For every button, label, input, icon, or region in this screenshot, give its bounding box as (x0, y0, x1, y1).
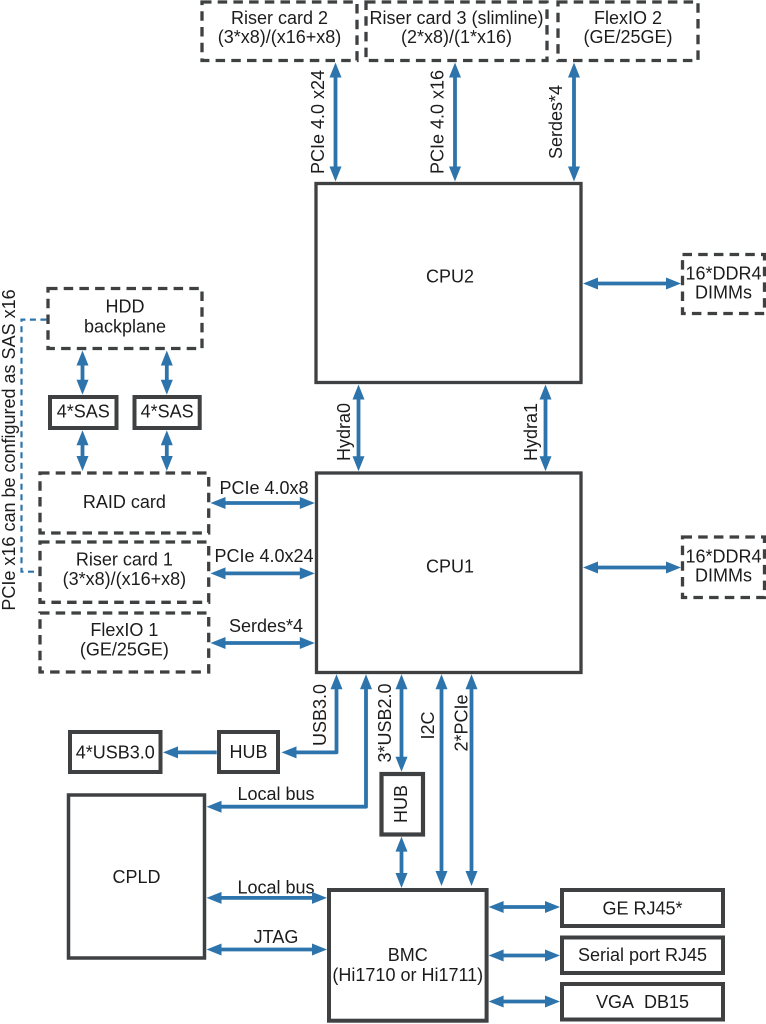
label: Local bus (CPLD - BMC) (237, 878, 314, 898)
svg-text:DIMMs: DIMMs (695, 566, 752, 586)
label: Local bus (CPU1 - CPLD) (237, 784, 314, 804)
arrow: BMC - VGA DB15 (489, 996, 560, 1008)
svg-text:Serdes*4: Serdes*4 (546, 85, 566, 159)
svg-text:(2*x8)/(1*x16): (2*x8)/(1*x16) (401, 27, 512, 47)
block: Riser card 2 (dashed) (202, 2, 357, 61)
svg-text:Serial port RJ45: Serial port RJ45 (578, 945, 707, 965)
block: 16*DDR4 DIMMs (lower, dashed) (683, 537, 765, 598)
arrow: Local bus (CPLD - BMC) (207, 892, 328, 904)
label: PCIe 4.0 x16 (428, 70, 448, 174)
arrow: CPU2 - 16*DDR4 DIMMs (583, 278, 681, 290)
svg-text:3*USB2.0: 3*USB2.0 (375, 683, 395, 762)
arrow: HUB - BMC (396, 837, 408, 888)
svg-text:Riser card 3 (slimline): Riser card 3 (slimline) (369, 8, 543, 28)
block: VGA DB15 (562, 984, 723, 1020)
arrow: Riser card 1 - CPU1 (PCIe 4.0x24) (211, 567, 315, 579)
svg-text:PCIe 4.0 x16: PCIe 4.0 x16 (428, 70, 448, 174)
svg-text:PCIe 4.0x24: PCIe 4.0x24 (214, 546, 313, 566)
svg-text:PCIe x16 can be configured as: PCIe x16 can be configured as SAS x16 (0, 289, 19, 610)
callout: blue dashed bracket (22, 320, 47, 572)
arrow: 3*USB2.0 (CPU1 - HUB) (396, 674, 408, 772)
svg-text:PCIe 4.0 x24: PCIe 4.0 x24 (308, 70, 328, 174)
arrow: 4*SAS right - RAID card (161, 430, 173, 471)
label: USB3.0 (310, 684, 330, 746)
block: HUB (USB2 hub) (382, 774, 424, 835)
arrow: RAID card - CPU1 (PCIe 4.0x8) (211, 497, 315, 509)
arrow: JTAG (CPLD - BMC) (207, 944, 328, 956)
svg-text:I2C: I2C (418, 711, 438, 739)
label: Serdes*4 (top) (546, 85, 566, 159)
arrow: 2*PCIe (CPU1 - BMC) (466, 674, 478, 886)
svg-text:HUB: HUB (229, 742, 267, 762)
svg-text:FlexIO 2: FlexIO 2 (594, 8, 662, 28)
svg-text:FlexIO 1: FlexIO 1 (90, 620, 158, 640)
svg-text:RAID card: RAID card (83, 492, 166, 512)
svg-text:2*PCIe: 2*PCIe (452, 694, 472, 751)
svg-text:Riser card 2: Riser card 2 (231, 8, 328, 28)
svg-text:GE RJ45*: GE RJ45* (602, 899, 682, 919)
label: PCIe 4.0 x24 (308, 70, 328, 174)
svg-text:Hydra0: Hydra0 (334, 403, 354, 461)
wire: USB3.0 (CPU1 - HUB) (282, 674, 343, 758)
svg-text:4*USB3.0: 4*USB3.0 (76, 743, 155, 763)
svg-text:BMC: BMC (388, 945, 428, 965)
block: Riser card 3 slimline (dashed) (366, 2, 547, 61)
svg-text:(3*x8)/(x16+x8): (3*x8)/(x16+x8) (218, 27, 342, 47)
block: 4*USB3.0 (70, 732, 161, 772)
label: 2*PCIe (452, 694, 472, 751)
block: CPU2 (316, 184, 581, 383)
svg-text:VGA DB15: VGA DB15 (596, 992, 689, 1012)
svg-text:(Hi1710 or Hi1711): (Hi1710 or Hi1711) (332, 965, 483, 985)
svg-text:PCIe 4.0x8: PCIe 4.0x8 (219, 478, 308, 498)
arrow: Hydra1 (CPU2 - CPU1) (540, 385, 552, 472)
svg-text:CPLD: CPLD (112, 867, 160, 887)
block: HDD backplane (dashed) (48, 289, 202, 349)
svg-text:(3*x8)/(x16+x8): (3*x8)/(x16+x8) (63, 569, 187, 589)
block: CPU1 (317, 473, 582, 673)
svg-text:4*SAS: 4*SAS (141, 402, 194, 422)
arrow: HDD backplane - 4*SAS left (77, 351, 89, 395)
block: 16*DDR4 DIMMs (upper, dashed) (683, 255, 765, 314)
arrow: CPU1 - 16*DDR4 DIMMs (583, 562, 681, 574)
svg-text:CPU2: CPU2 (426, 267, 474, 287)
arrow: Hydra0 (CPU2 - CPU1) (353, 385, 365, 472)
arrow: BMC - Serial port RJ45 (489, 950, 560, 962)
svg-text:Serdes*4: Serdes*4 (229, 616, 303, 636)
svg-text:16*DDR4: 16*DDR4 (685, 547, 761, 567)
arrow: 4*SAS left - RAID card (77, 430, 89, 471)
svg-text:Local bus: Local bus (237, 784, 314, 804)
block: Riser card 1 (dashed) (40, 542, 209, 602)
label: HUB (rotated) (391, 785, 411, 823)
arrow: Serdes*4 (FlexIO 2 - CPU2) (568, 63, 580, 182)
block: BMC (329, 890, 487, 1021)
svg-text:Hydra1: Hydra1 (521, 403, 541, 461)
svg-text:DIMMs: DIMMs (695, 283, 752, 303)
block: FlexIO 2 (dashed) (558, 2, 698, 61)
arrow: BMC - GE RJ45* (489, 901, 560, 913)
block: Serial port RJ45 (562, 938, 723, 974)
arrow: HDD backplane - 4*SAS right (161, 351, 173, 395)
svg-text:JTAG: JTAG (254, 927, 299, 947)
label: 3*USB2.0 (375, 683, 395, 762)
svg-text:Local bus: Local bus (237, 878, 314, 898)
block: 4*SAS (left) (50, 397, 117, 428)
label: PCIe 4.0x8 (219, 478, 308, 498)
arrow: HUB - 4*USB3.0 (163, 746, 217, 758)
svg-text:backplane: backplane (84, 317, 166, 337)
label: PCIe 4.0x24 (214, 546, 313, 566)
block: 4*SAS (right) (135, 397, 200, 428)
svg-text:16*DDR4: 16*DDR4 (685, 264, 761, 284)
svg-text:USB3.0: USB3.0 (310, 684, 330, 746)
label: Serdes*4 (left) (229, 616, 303, 636)
block: FlexIO 1 (dashed) (40, 613, 209, 672)
block: RAID card (dashed) (40, 473, 209, 533)
arrow: PCIe 4.0 x24 (Riser card 2 - CPU2) (330, 63, 342, 182)
label: Hydra1 (521, 403, 541, 461)
svg-text:4*SAS: 4*SAS (57, 402, 110, 422)
label: Hydra0 (334, 403, 354, 461)
arrow: FlexIO 1 - CPU1 (Serdes*4) (211, 637, 315, 649)
block: HUB (USB hub) (219, 732, 278, 772)
svg-text:Riser card 1: Riser card 1 (76, 550, 173, 570)
svg-text:HUB: HUB (391, 785, 411, 823)
svg-text:(GE/25GE): (GE/25GE) (583, 27, 672, 47)
label: PCIe x16 can be configured as SAS x16 (rotated) (0, 289, 19, 610)
label: I2C (418, 711, 438, 739)
label: JTAG (254, 927, 299, 947)
block: GE RJ45* (562, 890, 723, 926)
svg-text:(GE/25GE): (GE/25GE) (80, 640, 169, 660)
arrow: I2C (CPU1 - BMC) (436, 674, 448, 886)
block: CPLD (69, 795, 205, 958)
wire: Local bus (CPU1 - CPLD) (207, 674, 373, 813)
arrow: PCIe 4.0 x16 (Riser card 3 - CPU2) (449, 63, 461, 182)
svg-text:HDD: HDD (106, 297, 145, 317)
svg-text:CPU1: CPU1 (426, 557, 474, 577)
